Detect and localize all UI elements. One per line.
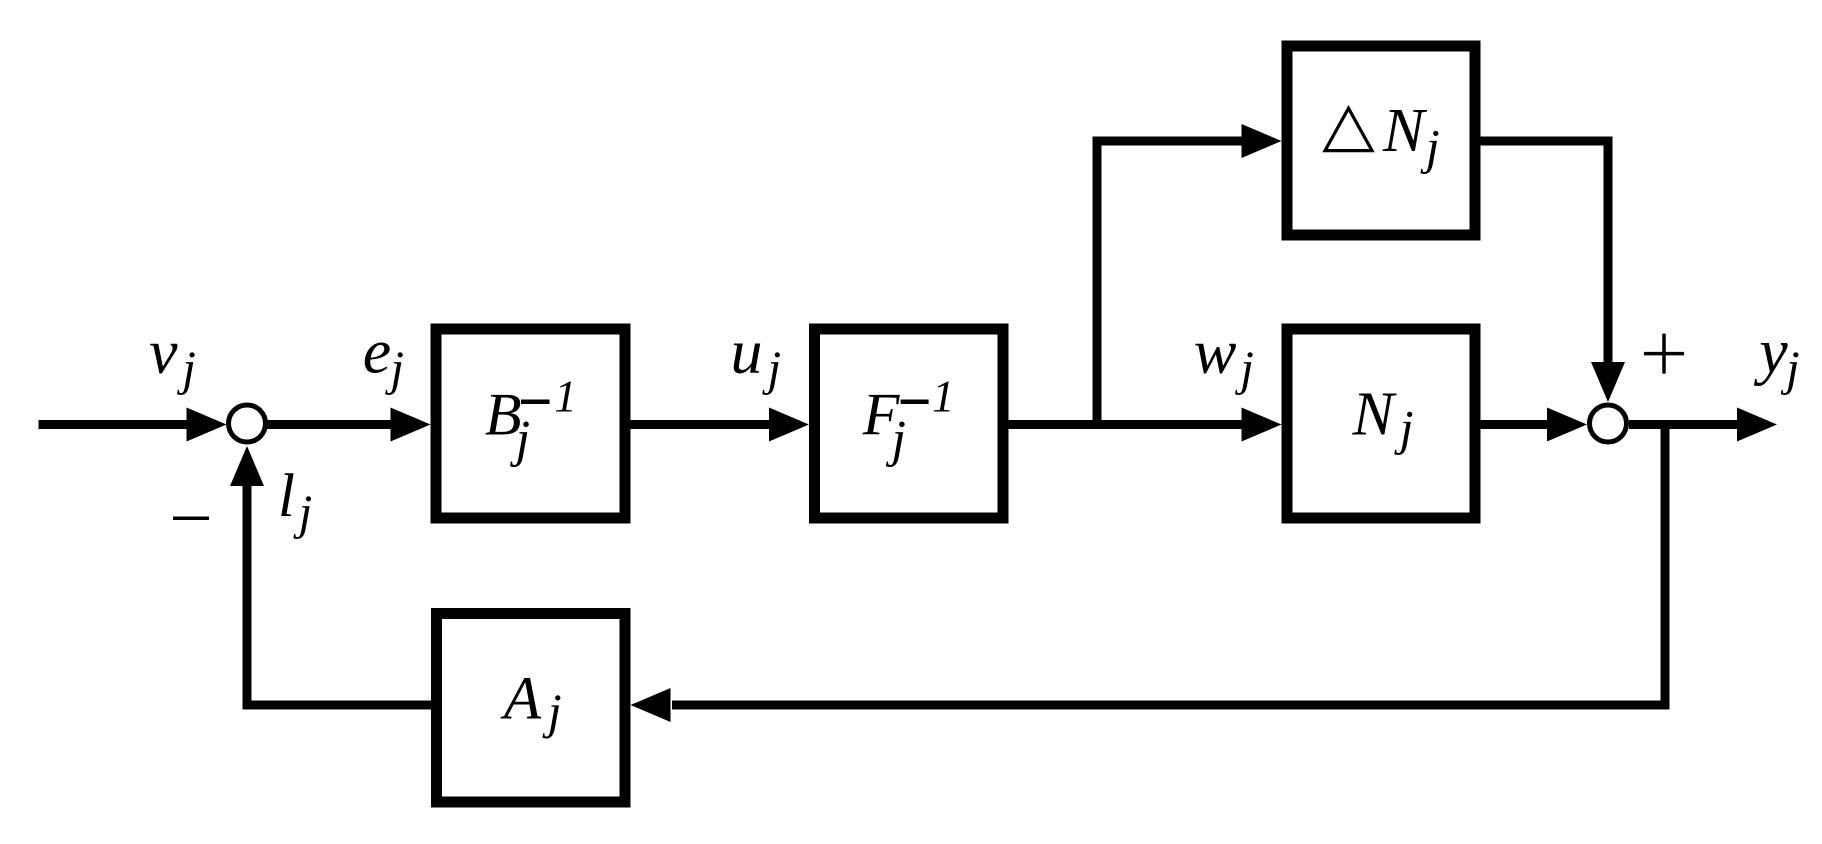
arrowhead up into S1 [230, 446, 264, 486]
wire S1 to B [265, 420, 392, 429]
summing junction S2 [1590, 405, 1627, 442]
svg-text:w: w [1194, 316, 1237, 387]
svg-text:y: y [1753, 316, 1788, 387]
svg-text:A: A [500, 666, 542, 733]
wire F to N [1009, 420, 1244, 429]
arrowhead into block F [769, 408, 809, 442]
wire output y_j [1629, 420, 1740, 429]
arrowhead down into S2 [1591, 362, 1625, 402]
wire DeltaN out [1481, 137, 1613, 146]
block B_j^-1 [436, 329, 625, 518]
label u_j [731, 316, 782, 395]
svg-text:1: 1 [554, 372, 577, 422]
svg-text:l: l [278, 463, 295, 530]
label e_j [363, 315, 404, 395]
wire A out left [243, 701, 432, 710]
arrowhead into summing junction S1 [187, 408, 227, 442]
wire B to F [630, 420, 771, 429]
svg-text:u: u [731, 316, 763, 387]
label N_j [1352, 380, 1414, 455]
wire N to S2 [1481, 420, 1550, 429]
label F_j^-1 [862, 372, 955, 468]
svg-text:e: e [363, 315, 391, 386]
arrowhead into block B [391, 408, 431, 442]
label B_j^-1 [485, 372, 577, 468]
svg-text:N: N [1382, 97, 1428, 165]
arrowhead into block DeltaN [1242, 124, 1282, 158]
svg-text:v: v [149, 316, 178, 387]
arrowhead output [1737, 408, 1777, 442]
wire branch to DeltaN [1093, 137, 1244, 146]
wire feedback down [1661, 425, 1670, 710]
summing junction S1 [229, 405, 266, 442]
label N_j of DeltaN block [1382, 97, 1440, 174]
block F_j^-1 [815, 329, 1004, 518]
label plus [1644, 334, 1684, 374]
label minus [173, 516, 209, 520]
wire feedback up to S1 [243, 486, 252, 710]
block DeltaN_j [1287, 46, 1475, 235]
wire down to S2 [1604, 137, 1613, 365]
svg-text:N: N [1352, 380, 1398, 448]
label triangle of DeltaN_j [1325, 108, 1372, 150]
arrowhead into S2 [1547, 408, 1587, 442]
block N_j [1287, 329, 1475, 518]
label w_j [1194, 316, 1254, 395]
block A_j [437, 614, 626, 803]
label y_j [1753, 316, 1799, 396]
wire feedback left [672, 701, 1670, 710]
label v_j [149, 316, 196, 395]
label l_j [278, 463, 312, 539]
arrowhead into block A [631, 688, 671, 722]
wire input v_j [39, 420, 191, 429]
svg-text:1: 1 [932, 372, 955, 422]
arrowhead into block N [1242, 408, 1282, 442]
label A_j [500, 666, 562, 739]
node branch junction [1093, 137, 1102, 425]
